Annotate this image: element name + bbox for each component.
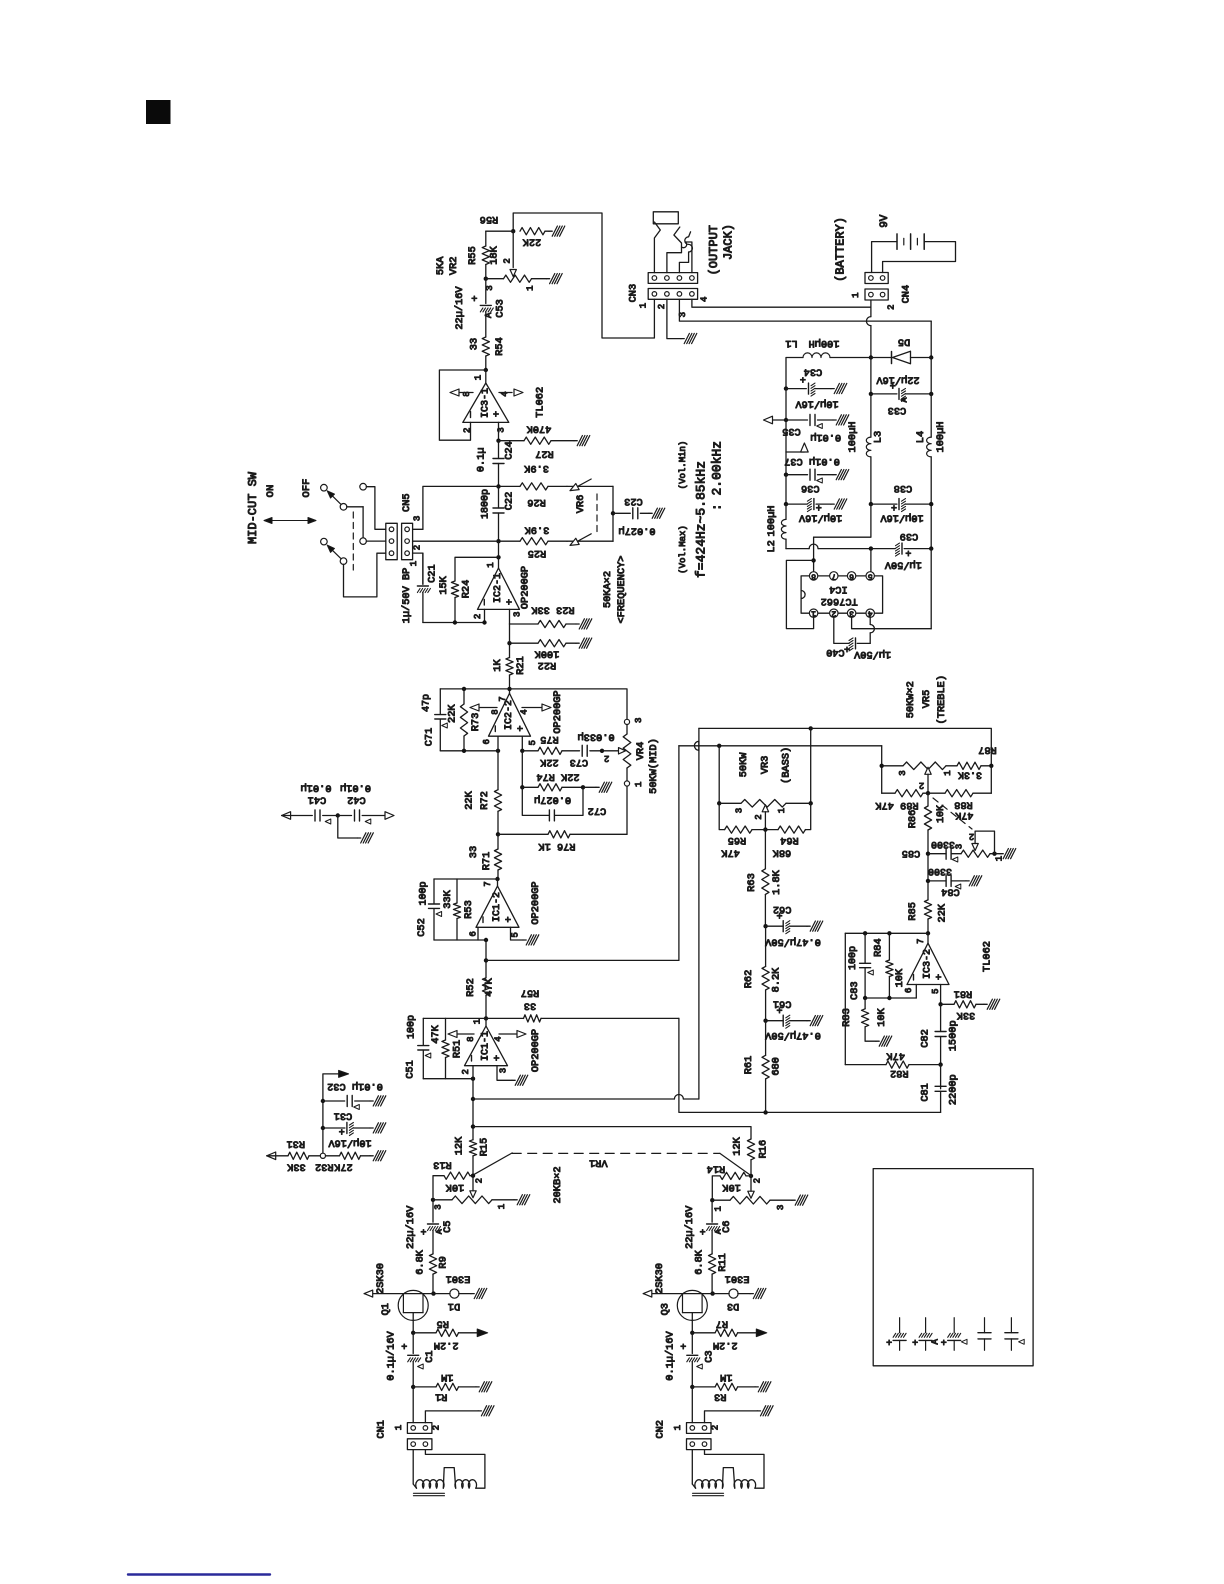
resistor R61 680: [762, 1055, 769, 1079]
op-amp IC2-1 (OP200GP): [498, 541, 500, 568]
svg-text:22K: 22K: [937, 903, 949, 922]
svg-text:0.1µ/16V: 0.1µ/16V: [386, 1330, 398, 1380]
capacitor C41 0.01u: [314, 810, 316, 821]
resistor R22 100K: [510, 642, 539, 644]
svg-text:33K: 33K: [286, 1161, 305, 1173]
node R1 row: [690, 1385, 694, 1389]
svg-text:R64: R64: [780, 834, 799, 846]
resistor R85 22K: [924, 900, 931, 919]
potentiometer VR1b body: [710, 1198, 714, 1202]
C52/R53 top line: [434, 878, 498, 880]
VR5b wiper tied to pin1: [972, 844, 978, 851]
svg-text:3: 3: [955, 844, 965, 849]
svg-text:C21: C21: [427, 564, 439, 583]
svg-text:C53: C53: [495, 299, 507, 318]
capacitor C31 10u/16V: [321, 1126, 325, 1130]
svg-text:4: 4: [500, 391, 510, 396]
resistor R3 1M: [692, 1386, 715, 1388]
svg-text:1: 1: [713, 1206, 723, 1211]
C37 arrow tap: [785, 420, 787, 452]
svg-text:1: 1: [673, 1425, 683, 1430]
svg-text:OFF: OFF: [301, 479, 313, 498]
svg-text:7: 7: [483, 881, 493, 886]
svg-text:4: 4: [494, 1036, 504, 1041]
svg-text:R14: R14: [707, 1162, 726, 1174]
svg-text:IC1-1: IC1-1: [481, 1031, 492, 1061]
ground at R74: [596, 782, 612, 792]
svg-text:R83: R83: [841, 1008, 853, 1027]
pin5 node: [940, 985, 942, 1005]
svg-text:OP200GP: OP200GP: [530, 1029, 542, 1072]
node R1 row: [411, 1385, 415, 1389]
svg-text:3: 3: [634, 718, 644, 723]
svg-text:R65: R65: [728, 834, 747, 846]
wire CN5 pin3 out: [413, 528, 423, 530]
potentiometer VR5 gang a: [881, 746, 883, 793]
wire CN5 pin1 down to pin2 line: [413, 553, 423, 584]
transistor Q1 2SK30 JFET: [431, 1291, 435, 1295]
bus R57 descend to bottom rail: [679, 1018, 941, 1112]
svg-text:R21: R21: [515, 656, 527, 675]
svg-text:18K: 18K: [489, 245, 501, 264]
svg-text:R63: R63: [746, 873, 758, 892]
svg-text:R73: R73: [470, 713, 482, 732]
resistor R71 33: [494, 849, 501, 870]
inductor L4 100uH: [927, 437, 932, 457]
potentiometer VR1a body: [431, 1198, 435, 1202]
svg-text:C85: C85: [902, 847, 921, 859]
left feedback rail to R82: [844, 933, 846, 1064]
svg-text:470K: 470K: [526, 422, 552, 434]
switch lever lower: [329, 547, 341, 559]
svg-text:3: 3: [735, 808, 745, 813]
svg-text:C84: C84: [941, 886, 960, 898]
capacitor C35 0.01u: [784, 418, 788, 422]
svg-text:3: 3: [513, 612, 523, 617]
capacitor C62 0.47u/50V: [766, 925, 784, 927]
resistor R11 6.8K: [709, 1254, 716, 1274]
bus to ch2 R16: [473, 1127, 751, 1139]
battery wires: [872, 242, 897, 273]
svg-text:3: 3: [849, 609, 854, 618]
VR6 right leg wire: [612, 486, 614, 541]
resistor R56: [520, 228, 545, 235]
node D5 anode: [869, 355, 873, 359]
svg-text:5: 5: [931, 989, 941, 994]
switch pole lower: [321, 538, 328, 545]
capacitor C32 0.01u: [321, 1099, 325, 1103]
line B input rail: [678, 746, 680, 961]
svg-text:+: +: [505, 599, 517, 605]
svg-text:R82: R82: [890, 1067, 909, 1079]
wire CN3 pin3 rail2: [679, 299, 931, 321]
capacitor C3 0.1u/16V: [691, 1333, 693, 1354]
svg-text:+: +: [844, 646, 850, 657]
wire pin2 to ground: [425, 1411, 478, 1423]
node C61: [763, 1019, 767, 1023]
svg-text:0.47µ/50V: 0.47µ/50V: [764, 1029, 820, 1041]
resistor R72 22K: [497, 751, 499, 790]
connector CN4 box: [865, 289, 888, 300]
svg-text:0.027µ: 0.027µ: [534, 793, 571, 805]
svg-text:22µ/16V: 22µ/16V: [405, 1205, 417, 1249]
svg-text:E301: E301: [446, 1273, 471, 1285]
svg-text:3.9K: 3.9K: [524, 524, 550, 536]
resistor R32 27K: [326, 1155, 340, 1157]
svg-text:CN2: CN2: [655, 1420, 667, 1439]
op-amp IC1-1 (OP200GP): [485, 1018, 487, 1026]
svg-text:C83: C83: [849, 981, 861, 1000]
wire main down: [485, 940, 487, 978]
inductor L2 100uH: [785, 504, 787, 519]
resistor R84 10K: [888, 933, 890, 960]
resistor R83 10K: [862, 1009, 869, 1027]
svg-text:10µ/16V: 10µ/16V: [795, 398, 839, 410]
R89/R88 row: [926, 791, 930, 795]
svg-text:7: 7: [831, 571, 836, 580]
svg-text:2SK30: 2SK30: [375, 1263, 387, 1294]
pin1 loop to pin8: [786, 560, 813, 628]
svg-text:C38: C38: [894, 482, 913, 494]
svg-text:IC2-2: IC2-2: [504, 700, 515, 730]
svg-text:7: 7: [498, 696, 508, 701]
inductor L1 100uH: [830, 357, 871, 359]
svg-text:+: +: [492, 1055, 504, 1061]
resistor R73 22K: [462, 687, 466, 691]
connector CN3 box: [648, 289, 697, 300]
switch travel arrow: [266, 520, 314, 522]
line A vertical riser: [698, 741, 700, 1099]
VR5a wiper: [925, 767, 931, 774]
VR6 gang b arrow: [573, 534, 592, 544]
svg-text:R54: R54: [494, 337, 506, 356]
svg-text:10µ/16V: 10µ/16V: [880, 512, 924, 524]
VR2 wiper pin2: [512, 231, 514, 267]
pin6 line: [440, 750, 498, 752]
coil core lines: [693, 1492, 724, 1494]
rail2 corner down: [930, 321, 932, 357]
svg-text:1: 1: [409, 561, 419, 566]
capacitor C82 1500p: [940, 1004, 942, 1031]
connector CN2: [691, 1387, 693, 1423]
pin4 wire (hops pin3 wire): [869, 617, 871, 624]
svg-text:22µ/16V: 22µ/16V: [454, 286, 466, 330]
L2 wire to pin5 node (hops pin8 riser): [786, 548, 809, 550]
svg-text:2: 2: [473, 614, 483, 619]
svg-text:1: 1: [811, 609, 816, 618]
switch gang dashed link: [352, 512, 354, 570]
svg-text:0.01µ: 0.01µ: [340, 782, 371, 794]
node C41/C42: [336, 813, 340, 817]
capacitor C40 1u/50V: [855, 638, 857, 649]
wire IC2-1 pin3 down: [509, 609, 511, 624]
svg-text:R76 1K: R76 1K: [538, 840, 576, 852]
svg-text:R27: R27: [535, 447, 554, 459]
svg-text:22K: 22K: [522, 236, 541, 248]
resistor R1 1M: [413, 1386, 436, 1388]
svg-text:+: +: [516, 725, 528, 731]
legend film cap delta: [1010, 1318, 1012, 1333]
svg-text:C82: C82: [919, 1029, 931, 1048]
svg-text:+: +: [492, 411, 504, 417]
output jack plug: [653, 212, 678, 224]
svg-text:2.2M: 2.2M: [434, 1339, 459, 1351]
svg-text:R85: R85: [907, 902, 919, 921]
svg-text:6: 6: [469, 931, 479, 936]
switch lever upper: [329, 493, 341, 505]
coil core lines: [414, 1492, 445, 1494]
capacitor C83 100p: [864, 933, 866, 963]
diode D1 E301: [434, 1293, 451, 1295]
svg-text:C31: C31: [334, 1110, 353, 1122]
svg-text:(BATTERY): (BATTERY): [834, 217, 848, 282]
svg-text:47K: 47K: [886, 1050, 905, 1062]
svg-text:C34: C34: [804, 366, 823, 378]
node R25/CN5-2 junction: [496, 539, 500, 543]
svg-text:100µH: 100µH: [766, 506, 778, 537]
svg-text:1K: 1K: [492, 659, 504, 672]
svg-text:OP200GP: OP200GP: [530, 881, 542, 924]
svg-text:CN4: CN4: [900, 285, 912, 304]
ground at VR2 pin1: [546, 274, 562, 284]
svg-text:VR3: VR3: [760, 756, 772, 775]
svg-text:(TREBLE): (TREBLE): [936, 675, 948, 724]
op-amp IC2-2 (OP200GP): [489, 693, 531, 736]
resistor R23 33K: [510, 623, 539, 625]
svg-text:+: +: [700, 1228, 706, 1239]
svg-text:TL062: TL062: [982, 941, 994, 972]
svg-text:C1: C1: [424, 1350, 436, 1362]
pin6 line: [865, 997, 916, 999]
node D5 cathode: [929, 355, 933, 359]
node R27 junction: [496, 439, 500, 443]
svg-text:2.2M: 2.2M: [713, 1339, 738, 1351]
capacitor C5 22u/16V: [432, 1200, 434, 1222]
switch pole upper: [321, 484, 328, 491]
capacitor C23 0.027u: [613, 512, 630, 514]
svg-text:100K: 100K: [534, 648, 560, 660]
resistor R15 12K: [469, 1140, 476, 1156]
svg-text:33: 33: [468, 338, 480, 350]
resistor R52 47K: [482, 978, 489, 996]
svg-text:2: 2: [711, 1425, 721, 1430]
ground at R56: [549, 226, 565, 236]
svg-text:3300: 3300: [931, 838, 955, 849]
svg-text:R3: R3: [714, 1391, 726, 1403]
ground at R23: [576, 619, 592, 629]
svg-text:8: 8: [462, 391, 472, 396]
switch throw upper: [340, 504, 347, 511]
capacitor C37 0.01u: [785, 452, 787, 475]
IC4 TC7662 body: [801, 576, 883, 613]
capacitor C42 0.01u: [338, 815, 352, 817]
ground at R83: [876, 1036, 892, 1046]
svg-text:R23 33K: R23 33K: [531, 604, 575, 616]
svg-text:2: 2: [657, 304, 667, 309]
svg-text:C36: C36: [801, 482, 820, 494]
svg-text:1: 1: [497, 1204, 507, 1209]
svg-text:5: 5: [868, 571, 873, 580]
pickup coil: [691, 1450, 693, 1484]
svg-text:TL062: TL062: [535, 387, 547, 418]
svg-text:3.3K: 3.3K: [958, 768, 982, 779]
capacitor C34 10u/16V: [784, 386, 788, 390]
svg-text:47K: 47K: [721, 846, 740, 858]
wire pin3 to ground: [497, 1066, 512, 1081]
wire R24 top: [455, 557, 499, 581]
resistor R89 47K: [895, 790, 923, 797]
diode D5: [871, 357, 891, 359]
connector CN1: [412, 1387, 414, 1423]
VR4 wiper: [602, 750, 619, 752]
resistor R75 22K: [522, 750, 538, 752]
svg-text:3: 3: [433, 1204, 443, 1209]
wire left rail down: [785, 389, 787, 420]
wire pin5 to ground: [511, 927, 524, 940]
svg-text:4: 4: [699, 297, 709, 302]
black square marker: [146, 100, 171, 124]
svg-text:C39: C39: [900, 530, 919, 542]
wire IC3-1 pin3 down: [498, 422, 500, 440]
capacitor C39 1u/50V: [869, 546, 873, 550]
node IC3-2 pin7: [926, 931, 930, 935]
svg-text:2200p: 2200p: [947, 1074, 959, 1105]
svg-text:L4: L4: [915, 431, 927, 443]
svg-text:33K: 33K: [956, 1009, 975, 1021]
node R76 junction: [496, 832, 500, 836]
svg-text:R88: R88: [954, 799, 973, 811]
svg-text:0.01µ: 0.01µ: [301, 782, 332, 794]
wire CN3 pin2 to ground: [667, 299, 681, 338]
wire pin2 to ground: [705, 1411, 758, 1423]
wire output net to CN3: [513, 213, 654, 338]
svg-text:(Vol.Max): (Vol.Max): [678, 525, 688, 574]
wire R56 node to R55 top: [486, 230, 513, 232]
wire upper throw to mid contact: [347, 506, 363, 508]
ground branch: [338, 816, 358, 839]
svg-text:50KW(MID): 50KW(MID): [648, 738, 660, 794]
svg-text:2: 2: [831, 609, 836, 618]
diode D3 E301: [713, 1293, 730, 1295]
capacitor C51 100p: [422, 1018, 424, 1045]
node source: [690, 1331, 694, 1335]
svg-text:1µ/50V: 1µ/50V: [853, 648, 891, 660]
wire CN4 pin1 down to D5 node (hops rail2): [870, 300, 872, 317]
svg-text:+: +: [890, 383, 896, 394]
svg-text:IC4: IC4: [829, 583, 848, 595]
C51/R51 top line: [423, 1017, 486, 1019]
feedback wire IC3-1 out to pin2: [439, 370, 485, 440]
svg-text:IC2-1: IC2-1: [493, 573, 504, 603]
svg-text:20KB×2: 20KB×2: [552, 1166, 564, 1203]
svg-text:100µH: 100µH: [935, 422, 947, 453]
resistor R86 10K: [924, 806, 931, 830]
svg-text:R71: R71: [481, 852, 493, 871]
svg-text:0.033µ: 0.033µ: [578, 730, 615, 742]
svg-text:CN5: CN5: [401, 493, 413, 512]
wire CN3 pin4 rail1: [692, 299, 871, 307]
svg-text:8: 8: [811, 571, 816, 580]
svg-text:C41: C41: [308, 793, 327, 805]
power arrows IC3-1 pins 8/4: [459, 392, 473, 394]
svg-text:1µ/50V: 1µ/50V: [884, 559, 922, 571]
svg-text:10K: 10K: [722, 1181, 741, 1193]
svg-text:10µ/16V: 10µ/16V: [798, 512, 842, 524]
wire arrow out: [323, 1074, 339, 1156]
svg-text:33K: 33K: [442, 889, 454, 908]
svg-text:3: 3: [499, 1068, 509, 1073]
svg-text:R52: R52: [465, 978, 477, 997]
svg-text:22K R74: 22K R74: [536, 771, 579, 783]
svg-text:5: 5: [528, 740, 538, 745]
svg-text:100p: 100p: [848, 946, 859, 970]
resistor R26 3.9K: [499, 485, 521, 487]
svg-text:R56: R56: [480, 213, 499, 225]
bus wire to tone network input: [486, 959, 679, 961]
svg-text:22K: 22K: [539, 756, 558, 768]
svg-text:D1: D1: [448, 1300, 460, 1312]
svg-text:47K: 47K: [484, 977, 496, 996]
R31/R32 row: [267, 1152, 276, 1160]
svg-text:+: +: [912, 1339, 918, 1350]
node R16 bus: [471, 1124, 475, 1128]
svg-text:0.1µ: 0.1µ: [476, 447, 488, 472]
svg-text:R53: R53: [463, 900, 475, 919]
svg-text:(BASS): (BASS): [780, 747, 792, 784]
pin2 bottom line: [423, 1078, 473, 1080]
legend electrolytic delta: [953, 1318, 955, 1333]
svg-text:C40: C40: [826, 646, 845, 658]
op-amp IC3-2 (TL062): [927, 933, 929, 943]
node C23 tap: [611, 511, 615, 515]
VR6 gang dashed link: [596, 494, 598, 534]
svg-text:33: 33: [524, 999, 536, 1011]
svg-text:CN1: CN1: [376, 1420, 388, 1439]
svg-text:3: 3: [776, 1205, 786, 1210]
node source: [411, 1331, 415, 1335]
right rail down: [930, 358, 932, 394]
connector CN3 jack-side box: [648, 273, 697, 284]
capacitor C36 10u/16V: [785, 475, 787, 504]
svg-text:(OUTPUT: (OUTPUT: [707, 225, 721, 275]
resistor R31 33K: [288, 1152, 309, 1159]
rail apex to VR4 pin3: [510, 689, 628, 719]
svg-text:R15: R15: [479, 1138, 491, 1157]
node bus1 junction: [484, 958, 488, 962]
svg-text:6: 6: [904, 988, 914, 993]
ground VR1a pin1: [514, 1195, 530, 1205]
svg-text:ON: ON: [265, 485, 277, 498]
svg-text:R61: R61: [743, 1056, 755, 1075]
svg-text:1: 1: [634, 782, 644, 787]
pin6 bottom line: [434, 939, 486, 941]
line A feedback rail: [699, 727, 811, 729]
svg-text:2: 2: [969, 831, 974, 841]
svg-text:R57: R57: [521, 986, 540, 998]
svg-text:22K: 22K: [447, 704, 459, 723]
wire node to CN5 pin3: [413, 486, 499, 529]
svg-text:1: 1: [777, 808, 787, 813]
svg-text:C24: C24: [504, 441, 516, 460]
potentiometer VR2: [484, 277, 488, 281]
node R61 bottom: [763, 1110, 767, 1114]
svg-text:100µH: 100µH: [809, 337, 840, 349]
switch throw lower: [340, 558, 347, 565]
svg-text:IC3-2: IC3-2: [923, 949, 934, 979]
svg-text:7: 7: [916, 939, 926, 944]
capacitor C72 0.027u: [522, 787, 549, 815]
potentiometer VR4 50KW (MID): [624, 719, 629, 724]
